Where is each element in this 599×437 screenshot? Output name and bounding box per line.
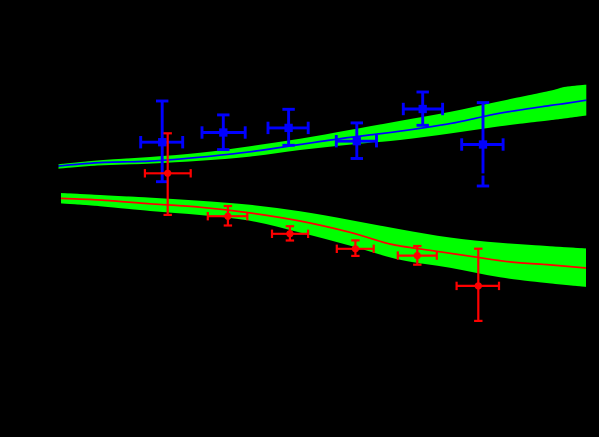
blue square data point B5 with error bars [403, 92, 442, 125]
blue square data point B3 with error bars [268, 109, 308, 145]
red circle data point R6 with error bars [457, 249, 499, 321]
black gap artifact on B6 vertical error bar [481, 173, 486, 175]
upper central theory curve (blue) [59, 100, 587, 166]
red circle data point R3 with error bars [272, 226, 308, 240]
lower central theory curve (red) [61, 198, 586, 268]
blue square data point B2 with error bars [202, 115, 245, 150]
red circle data point R5 with error bars [398, 246, 437, 265]
red circle data point R1 with error bars [145, 133, 191, 215]
upper theory uncertainty band (green) [59, 85, 587, 169]
blue square data point B1 with error bars [141, 101, 183, 182]
blue square data point B4 with error bars [336, 123, 376, 159]
blue square data point B6 with error bars [462, 103, 503, 186]
lower theory uncertainty band (green) [61, 193, 586, 287]
red circle data point R2 with error bars [208, 206, 248, 226]
red circle data point R4 with error bars [337, 240, 374, 256]
